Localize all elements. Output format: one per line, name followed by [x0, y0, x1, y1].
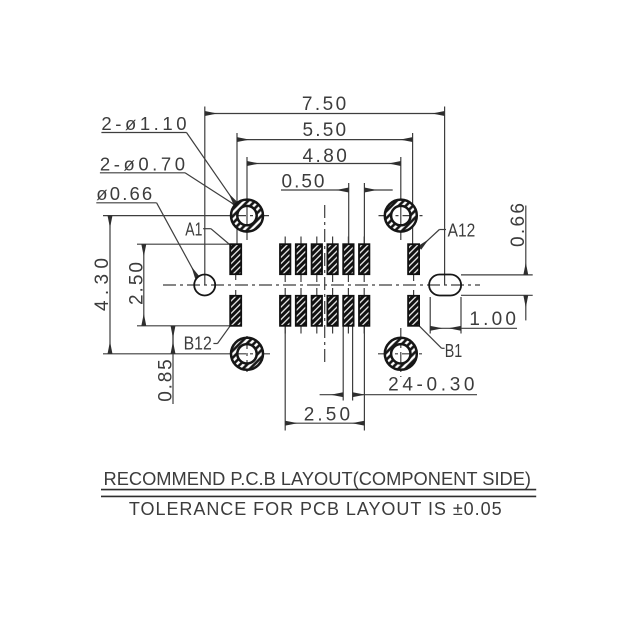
svg-text:A12: A12	[448, 220, 476, 241]
svg-text:0.50: 0.50	[282, 172, 325, 193]
svg-text:4.80: 4.80	[303, 146, 347, 167]
svg-text:0.85: 0.85	[156, 359, 177, 401]
svg-text:0.66: 0.66	[508, 203, 529, 247]
svg-text:RECOMMEND P.C.B LAYOUT(COMPONE: RECOMMEND P.C.B LAYOUT(COMPONENT SIDE)	[104, 468, 532, 489]
svg-text:B1: B1	[445, 340, 463, 361]
svg-text:1.00: 1.00	[469, 309, 516, 330]
svg-text:TOLERANCE FOR PCB LAYOUT IS ±0: TOLERANCE FOR PCB LAYOUT IS ±0.05	[129, 499, 502, 519]
svg-text:2.50: 2.50	[304, 405, 350, 426]
svg-text:A1: A1	[185, 219, 202, 240]
svg-text:B12: B12	[184, 333, 212, 354]
svg-text:2.50: 2.50	[127, 262, 148, 305]
svg-text:7.50: 7.50	[302, 94, 346, 115]
svg-text:ø0.66: ø0.66	[96, 183, 152, 204]
svg-text:5.50: 5.50	[303, 120, 347, 141]
svg-text:4.30: 4.30	[92, 258, 113, 311]
